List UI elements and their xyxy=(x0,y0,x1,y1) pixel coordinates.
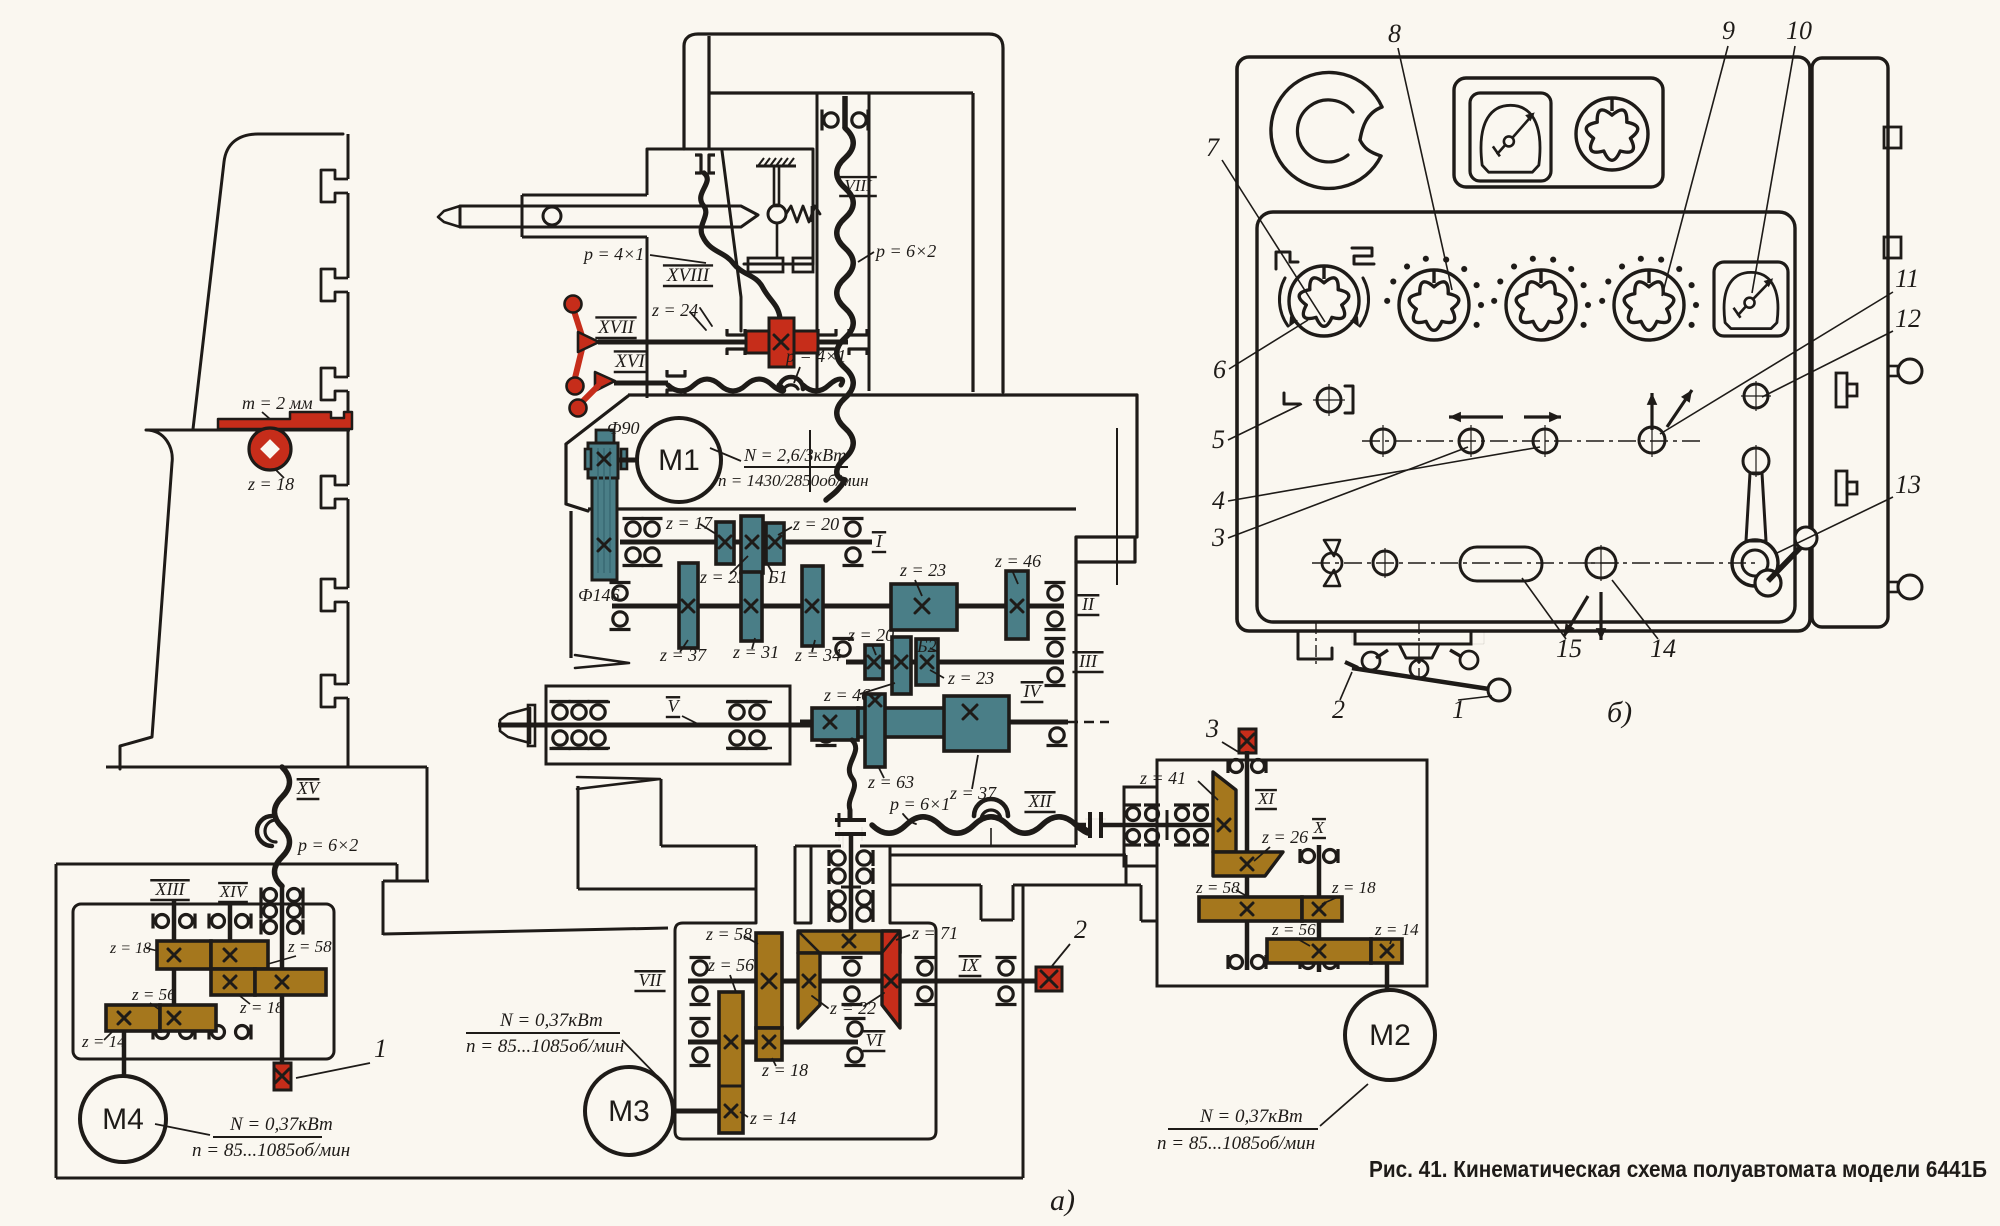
label z=31 xyxy=(732,638,779,662)
label XVI xyxy=(614,351,647,372)
label p=4x1 (XVIII) xyxy=(582,244,706,264)
link M1-spindle xyxy=(618,458,637,463)
coupling brackets on XVIII xyxy=(695,155,715,173)
handle XVI (red) xyxy=(570,372,616,417)
svg-text:II: II xyxy=(1081,594,1095,614)
top frame outline xyxy=(684,34,1003,392)
label z=58 (M2) xyxy=(1195,878,1250,898)
callout 1 xyxy=(296,1034,387,1078)
handwheel bottom xyxy=(1355,622,1478,680)
M4 inner box xyxy=(73,904,334,1059)
label z=18 (M4b) xyxy=(239,996,284,1017)
svg-text:z = 23: z = 23 xyxy=(899,560,946,580)
knob 4 xyxy=(1599,256,1699,340)
svg-text:VII: VII xyxy=(639,970,663,990)
svg-text:z = 71: z = 71 xyxy=(911,923,958,943)
label z=14 (M2) xyxy=(1374,920,1419,944)
svg-text:z = 23: z = 23 xyxy=(947,668,994,688)
svg-text:12: 12 xyxy=(1895,304,1921,333)
shaft I xyxy=(620,540,872,545)
gear cup z=71 top xyxy=(798,931,900,953)
callout 15 (panel) xyxy=(1522,578,1582,663)
bottom row line xyxy=(1312,562,1760,564)
body left lower edge xyxy=(660,779,663,846)
gear z=18 (M3) xyxy=(756,1028,782,1060)
label M2 power xyxy=(1157,1084,1368,1154)
shaft XVIII (wavy) xyxy=(701,173,780,318)
label z=37 (II) xyxy=(659,640,707,665)
annotation box line xyxy=(810,428,1117,585)
circle 14 xyxy=(1583,545,1619,581)
svg-text:z = 56: z = 56 xyxy=(707,955,754,975)
motor M2 xyxy=(1345,990,1435,1080)
vertical shaft lower xyxy=(849,834,854,935)
gear z=56 (M3) xyxy=(719,992,743,1133)
knob 1 xyxy=(1279,266,1368,336)
svg-text:n = 85...1085об/мин: n = 85...1085об/мин xyxy=(192,1140,350,1161)
gear z=56 (M4 XIII) xyxy=(160,1005,216,1031)
svg-text:M1: M1 xyxy=(658,444,700,477)
label b) xyxy=(1607,696,1632,729)
svg-text:z = 31: z = 31 xyxy=(732,642,779,662)
label XI xyxy=(1255,789,1277,809)
label II xyxy=(1077,594,1100,615)
column right edge with T-slots xyxy=(321,134,348,767)
label z=41 xyxy=(1139,768,1218,800)
svg-text:z = 22: z = 22 xyxy=(829,998,876,1018)
svg-text:XV: XV xyxy=(296,778,321,798)
svg-text:6: 6 xyxy=(1213,355,1226,384)
callout 6 (panel) xyxy=(1213,320,1308,384)
svg-text:5: 5 xyxy=(1212,425,1225,454)
callout 4 (panel) xyxy=(1212,447,1540,515)
mid circle b xyxy=(1459,425,1483,457)
central box bottom xyxy=(661,845,1076,848)
shaft M4 motor xyxy=(122,1030,127,1076)
drill bar xyxy=(438,206,758,227)
svg-text:10: 10 xyxy=(1786,16,1812,45)
channel walls xyxy=(756,846,890,923)
shaft XIV xyxy=(228,901,233,995)
callout 10 (panel) xyxy=(1752,16,1812,293)
side door panel xyxy=(1812,58,1901,627)
label VII xyxy=(634,970,665,991)
svg-text:z = 63: z = 63 xyxy=(867,772,914,792)
gear z=34 xyxy=(802,566,823,646)
indicator 5 xyxy=(1284,384,1353,416)
motor M4 xyxy=(80,1076,166,1162)
arrow diag xyxy=(1667,390,1692,427)
callout 3 (part a) xyxy=(1205,714,1240,753)
svg-text:z = 17: z = 17 xyxy=(665,513,713,533)
ram housing xyxy=(522,149,813,398)
bearings shaft II xyxy=(610,583,1066,630)
motor M1 xyxy=(637,418,721,502)
label z=14 (M4) xyxy=(81,1030,126,1051)
label XV xyxy=(296,778,321,799)
svg-text:z = 18: z = 18 xyxy=(1331,878,1376,897)
label VI xyxy=(863,1030,886,1051)
svg-text:p = 6×2: p = 6×2 xyxy=(874,241,936,261)
label V xyxy=(666,696,700,725)
gear z=58 (M2) xyxy=(1199,897,1302,921)
callout 2 xyxy=(1052,915,1087,966)
bearings XII right xyxy=(1125,805,1209,845)
gear z=37 (II) xyxy=(679,563,698,648)
knob (top) xyxy=(1576,98,1648,170)
gear z=24 (red) xyxy=(746,318,818,367)
svg-text:z = 58: z = 58 xyxy=(705,924,752,944)
collar brackets XVII xyxy=(727,329,867,355)
shaft XII (wavy) xyxy=(872,817,1089,834)
svg-text:III: III xyxy=(1078,651,1098,671)
gear cup right leg (red) xyxy=(882,931,900,1028)
svg-text:IX: IX xyxy=(961,955,980,975)
arrow left xyxy=(1449,412,1503,423)
gear block IV-left xyxy=(812,708,858,740)
svg-text:15: 15 xyxy=(1556,634,1582,663)
label VIII xyxy=(839,176,877,196)
bearing stack XV xyxy=(261,888,303,935)
svg-text:z = 20: z = 20 xyxy=(792,514,839,534)
gear z=14 (M4 motor) xyxy=(106,1005,160,1031)
svg-text:VI: VI xyxy=(866,1030,884,1050)
svg-text:z = 34: z = 34 xyxy=(794,645,841,665)
svg-text:XIII: XIII xyxy=(155,879,186,899)
label z=18 xyxy=(247,470,294,494)
shaft XVI xyxy=(614,381,668,386)
label z=46 (III) xyxy=(823,639,895,706)
label z=18 (M4a) xyxy=(109,940,158,957)
callout 7 (panel) xyxy=(1206,133,1325,322)
knob 3 xyxy=(1491,256,1591,340)
svg-text:z = 18: z = 18 xyxy=(247,474,294,494)
svg-text:z = 26: z = 26 xyxy=(1261,827,1308,847)
svg-text:2: 2 xyxy=(1074,915,1087,944)
callout 5 (panel) xyxy=(1212,404,1302,454)
red coupling 2 xyxy=(1036,967,1062,991)
label z=46 (II) xyxy=(994,551,1041,584)
svg-text:z = 24: z = 24 xyxy=(651,300,698,320)
shaft XIII xyxy=(172,901,177,1032)
label m=2mm xyxy=(242,393,313,419)
cone center V xyxy=(500,705,535,746)
bearings shaft I xyxy=(623,519,864,566)
svg-text:p = 6×2: p = 6×2 xyxy=(296,835,358,855)
plunger plate xyxy=(748,258,813,272)
crossing marks XV xyxy=(257,816,276,846)
bottom circle b xyxy=(1373,548,1397,578)
svg-text:1: 1 xyxy=(374,1034,387,1063)
VIII shaft slot walls xyxy=(817,93,869,391)
label z=23 (I) xyxy=(699,556,748,587)
latch 1 xyxy=(1836,373,1857,407)
shaft XI xyxy=(1245,751,1250,970)
gear z=20 (III) xyxy=(865,645,883,679)
hatch ceiling xyxy=(756,158,796,166)
svg-text:z = 14: z = 14 xyxy=(1374,920,1419,939)
gear B2 xyxy=(916,639,938,685)
svg-text:z = 46: z = 46 xyxy=(823,685,870,705)
svg-text:XVII: XVII xyxy=(597,317,636,338)
label z=20 xyxy=(778,514,839,535)
body right edge xyxy=(1076,395,1137,845)
machine column outline xyxy=(106,134,427,769)
svg-text:XVIII: XVIII xyxy=(666,265,711,286)
input shaft M2 xyxy=(1077,823,1086,828)
gear block B1 xyxy=(741,516,763,573)
svg-text:7: 7 xyxy=(1206,133,1220,162)
label z=56 (M3) xyxy=(707,955,754,992)
gear z=18 row2 (M4 XIV) xyxy=(211,969,255,995)
door knob top xyxy=(1888,359,1922,383)
label z=17 xyxy=(665,513,716,534)
svg-text:M4: M4 xyxy=(102,1103,144,1136)
shaft V xyxy=(498,723,813,728)
svg-text:13: 13 xyxy=(1895,470,1921,499)
symbol P (panel) xyxy=(1276,252,1298,269)
arrow up xyxy=(1647,393,1658,430)
svg-text:2: 2 xyxy=(1332,695,1345,724)
svg-text:z = 23: z = 23 xyxy=(699,567,746,587)
label a) xyxy=(1050,1184,1075,1217)
callout 1 (panel) xyxy=(1452,695,1492,724)
svg-text:3: 3 xyxy=(1205,714,1219,743)
label z=18 (M3b) xyxy=(761,1058,808,1080)
shaft VIII (wavy) xyxy=(826,96,853,500)
bevel gear z=26 xyxy=(1213,852,1283,876)
gear z=58 (M4 XV) xyxy=(255,969,326,995)
rack m=2mm (red) xyxy=(218,412,352,429)
label M4 power xyxy=(155,1114,350,1161)
bevel gear z=41 xyxy=(1213,772,1236,852)
slot 15 xyxy=(1460,547,1542,581)
callout 9 (panel) xyxy=(1662,16,1735,296)
M2 box xyxy=(1124,760,1427,986)
label z=58 (M4a) xyxy=(268,937,332,964)
svg-text:N = 0,37кВт: N = 0,37кВт xyxy=(499,1010,603,1031)
C spiral xyxy=(1271,72,1382,188)
gear z=17 xyxy=(716,522,734,564)
svg-text:z = 58: z = 58 xyxy=(1195,878,1240,897)
shaft XV straight xyxy=(280,886,285,1063)
shaft VII-IX xyxy=(688,979,1038,984)
shaft XII straight xyxy=(1101,823,1224,828)
panel hinge xyxy=(1298,622,1484,668)
bowtie valve xyxy=(1322,540,1342,586)
plunger rod xyxy=(768,166,786,258)
label z=23 (III) xyxy=(930,668,994,688)
label p=6x2 (VIII) xyxy=(858,241,936,262)
shaft M3 xyxy=(673,1109,731,1114)
svg-text:3: 3 xyxy=(1211,523,1225,552)
gear z=14 (M2) xyxy=(1371,939,1402,963)
label XIV xyxy=(218,882,249,902)
gear cup left leg z=22 xyxy=(798,953,820,1028)
red coupling 3 xyxy=(1239,729,1256,753)
label z=24 xyxy=(651,300,712,330)
svg-text:M3: M3 xyxy=(608,1095,650,1128)
label p=4x1 (XVI) xyxy=(784,346,846,383)
svg-text:z = 14: z = 14 xyxy=(81,1032,126,1051)
svg-text:z = 41: z = 41 xyxy=(1139,768,1186,788)
gear z=31 xyxy=(741,572,762,641)
bed outline left xyxy=(56,767,1023,1178)
label z=71 xyxy=(896,923,958,943)
shaft IV xyxy=(800,720,1109,725)
label XII xyxy=(1024,791,1055,812)
svg-text:z = 20: z = 20 xyxy=(847,625,894,645)
handwheel XVII (red) xyxy=(565,296,600,395)
top gauge strip box xyxy=(1454,78,1663,187)
gear z=18 (M2) xyxy=(1302,897,1342,921)
label I xyxy=(872,531,886,552)
bearings XIII bottom xyxy=(153,1025,195,1040)
bearings XI xyxy=(1228,759,1266,969)
label z=63 xyxy=(867,766,914,792)
gear z=56 (M2) xyxy=(1267,939,1371,963)
callout 13 (panel) xyxy=(1777,470,1921,553)
label z=56 (M2) xyxy=(1271,920,1316,946)
gear z=46 small xyxy=(892,637,911,694)
wedge break 2 xyxy=(577,777,660,789)
svg-text:z = 56: z = 56 xyxy=(1271,920,1316,939)
bearings shaft V xyxy=(550,702,768,749)
shaft XVI wavy extension xyxy=(668,379,843,391)
label z=56 (M4) xyxy=(131,985,176,1010)
panel inner rect xyxy=(1257,212,1795,622)
arrow down xyxy=(1596,592,1607,640)
label X xyxy=(1312,818,1326,838)
svg-text:N = 2,6/3кВт: N = 2,6/3кВт xyxy=(743,445,846,465)
svg-text:11: 11 xyxy=(1895,264,1919,293)
label III xyxy=(1072,651,1103,672)
label XVII xyxy=(595,317,636,338)
shaft VIII letters xyxy=(822,110,868,131)
crossing bridge on XII xyxy=(974,799,1008,846)
mid circle a xyxy=(1371,425,1395,457)
label F90 xyxy=(607,418,639,438)
svg-text:M2: M2 xyxy=(1369,1019,1411,1052)
svg-text:n = 85...1085об/мин: n = 85...1085об/мин xyxy=(466,1036,624,1057)
mid circle c xyxy=(1533,425,1557,457)
label z=20 (III) xyxy=(847,625,894,655)
label z=26 xyxy=(1254,827,1308,861)
svg-text:IV: IV xyxy=(1023,681,1043,701)
svg-text:z = 14: z = 14 xyxy=(749,1108,796,1128)
symbol 2 (panel) xyxy=(1352,248,1374,264)
knob 2 xyxy=(1384,256,1484,340)
bearings M3 box xyxy=(690,958,1017,1066)
callout 2 (panel) xyxy=(1332,672,1352,724)
label z=34 xyxy=(794,640,841,665)
shaft X xyxy=(1317,845,1322,972)
callout 8 (panel) xyxy=(1388,19,1452,290)
label IX xyxy=(959,955,982,976)
label IV xyxy=(1021,681,1044,702)
bearing stack vertical shaft xyxy=(829,850,873,922)
collar brackets XVI xyxy=(667,370,685,396)
svg-text:XI: XI xyxy=(1257,789,1275,808)
label p=6x2 (XV) xyxy=(296,835,358,855)
arrow right xyxy=(1524,412,1561,423)
callout 11 (panel) xyxy=(1660,264,1919,434)
svg-text:N = 0,37кВт: N = 0,37кВт xyxy=(229,1114,333,1135)
svg-text:m = 2 мм: m = 2 мм xyxy=(242,393,313,413)
label z=58 (M3) xyxy=(705,924,758,944)
body top edge xyxy=(628,393,1137,396)
gear z=18 (M4 XIII) xyxy=(157,941,211,969)
gear z=46 (II) xyxy=(1006,571,1028,639)
svg-text:14: 14 xyxy=(1650,634,1676,663)
gear long IV xyxy=(858,708,1008,737)
label B2 xyxy=(916,636,938,656)
svg-text:X: X xyxy=(1313,818,1325,837)
label B1 xyxy=(764,558,788,587)
label z=23 (II) xyxy=(899,560,946,596)
label z=14 (M3) xyxy=(740,1108,796,1128)
svg-text:4: 4 xyxy=(1212,486,1225,515)
label M3 power xyxy=(466,1010,659,1078)
label z=22 xyxy=(812,993,884,1018)
right band xyxy=(890,855,1157,921)
svg-text:n = 85...1085об/мин: n = 85...1085об/мин xyxy=(1157,1133,1315,1154)
crank 13 xyxy=(1732,445,1778,586)
label p=6x1 xyxy=(888,794,950,824)
gear z=58 row1 (M4 XIV) xyxy=(211,941,268,969)
label N=2,6/3kWt xyxy=(710,445,869,490)
svg-text:8: 8 xyxy=(1388,19,1401,48)
gear z=63 xyxy=(865,694,885,767)
bearings XIII top xyxy=(153,914,195,929)
svg-text:z = 18: z = 18 xyxy=(109,940,151,957)
label z=18 (M2) xyxy=(1322,878,1376,904)
shaft V housing xyxy=(546,686,790,764)
svg-text:Ф90: Ф90 xyxy=(607,418,639,438)
spindle sleeve F90/F146 (teal) xyxy=(585,430,627,580)
bearings XIV bottom xyxy=(209,1025,251,1040)
shaft II xyxy=(612,604,1064,609)
callout 3 (panel) xyxy=(1211,447,1468,552)
lever 1-2 xyxy=(1345,662,1510,701)
gear z=58 (M3) xyxy=(756,933,782,1028)
label F146 xyxy=(578,585,619,605)
coupling on vertical shaft xyxy=(835,813,866,848)
svg-text:б): б) xyxy=(1607,696,1632,729)
shaft VI xyxy=(688,1040,858,1045)
shaft III xyxy=(846,660,1064,665)
gear z=23 big xyxy=(891,584,957,630)
svg-text:n = 1430/2850об/мин: n = 1430/2850об/мин xyxy=(718,471,869,490)
latch 2 xyxy=(1836,471,1857,505)
mid circle d xyxy=(1639,423,1665,457)
callout 14 (panel) xyxy=(1612,580,1676,663)
svg-text:Б2: Б2 xyxy=(916,636,937,656)
svg-text:z = 56: z = 56 xyxy=(131,985,176,1004)
label XIII xyxy=(150,879,189,900)
svg-text:N = 0,37кВт: N = 0,37кВт xyxy=(1199,1106,1303,1127)
wedge break 1 xyxy=(575,655,629,668)
bearings shaft IV xyxy=(816,728,1068,746)
bearings shaft III xyxy=(1045,639,1066,686)
callout 12 (panel) xyxy=(1762,304,1921,397)
mid row line xyxy=(1362,440,1700,442)
control panel outer xyxy=(1237,57,1810,631)
label XVIII xyxy=(663,265,713,286)
svg-text:XIV: XIV xyxy=(219,882,249,901)
coupling XII right xyxy=(1085,812,1106,838)
svg-text:p = 4×1: p = 4×1 xyxy=(582,244,644,264)
